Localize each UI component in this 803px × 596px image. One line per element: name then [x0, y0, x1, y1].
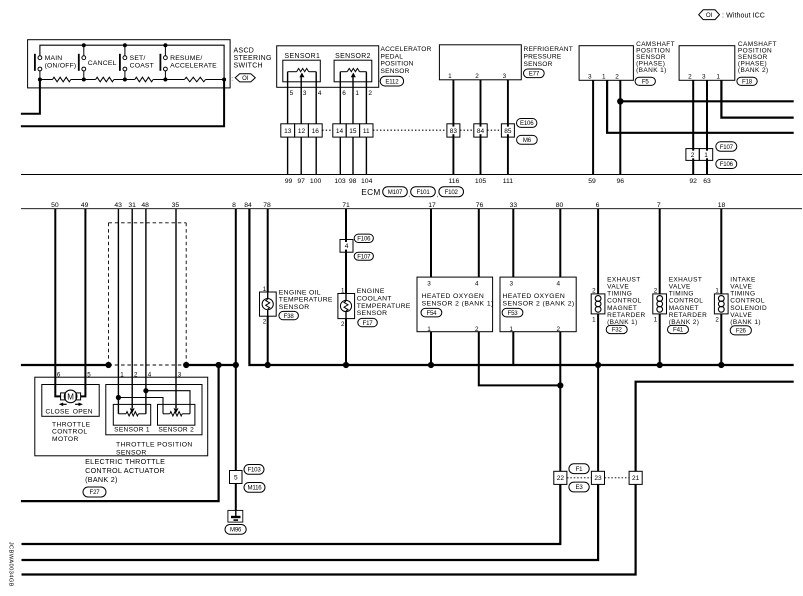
svg-text:3: 3 [303, 90, 307, 97]
heated oxygen sensor 2 (bank 1) box F54 [417, 277, 494, 333]
svg-text:MAGNET: MAGNET [669, 305, 699, 312]
svg-text:35: 35 [172, 202, 180, 209]
svg-text:1: 1 [654, 317, 658, 324]
svg-text:(ON/OFF): (ON/OFF) [45, 63, 77, 70]
svg-text:84: 84 [477, 128, 485, 135]
label ENGINE COOLANT TEMPERATURE SENSOR [357, 288, 411, 317]
svg-text:TIMING: TIMING [669, 291, 694, 298]
svg-text:2: 2 [263, 319, 267, 326]
wire ECM 31 to TPS pin2 wiper [131, 209, 133, 408]
svg-text:2: 2 [688, 74, 692, 81]
connector terminals 2 1 [686, 149, 713, 161]
svg-text:16: 16 [312, 128, 320, 135]
svg-text:TEMPERATURE: TEMPERATURE [357, 303, 411, 310]
svg-text:1: 1 [602, 74, 606, 81]
svg-text:4: 4 [557, 281, 561, 288]
svg-text:3: 3 [702, 74, 706, 81]
svg-text:OI: OI [242, 76, 249, 82]
ASCD steering switch box [28, 40, 231, 88]
wires from APP connectors to ECM [288, 137, 367, 174]
svg-text:2: 2 [475, 73, 479, 80]
page code JCBWA0034GB [8, 542, 14, 587]
svg-text::: : [231, 76, 233, 83]
connector label F1 [569, 464, 589, 474]
svg-text:M: M [67, 393, 74, 402]
ECM bottom boundary line [21, 208, 802, 210]
wire camshaft bank2 pin1 to right edge [721, 80, 793, 117]
svg-text:50: 50 [51, 202, 59, 209]
svg-text:13: 13 [284, 128, 292, 135]
connector terminals 83 84 85 [447, 124, 515, 137]
svg-text:F18: F18 [742, 79, 753, 86]
svg-text:71: 71 [342, 202, 350, 209]
wires ECM 33 and 80 to heated oxygen sensor bank2 [513, 209, 560, 277]
ASCD bottom bus wire [40, 79, 224, 81]
svg-text:,: , [408, 192, 410, 199]
svg-text:F106: F106 [720, 161, 734, 168]
svg-text:F26: F26 [736, 328, 747, 335]
svg-text:PRESSURE: PRESSURE [524, 54, 562, 61]
wires refrigerant sensor pins 1,2,3 to ECM [453, 80, 508, 175]
svg-text:84: 84 [244, 202, 252, 209]
wire from ASCD switch output to left edge [21, 80, 224, 127]
connector label F38 [279, 311, 299, 319]
wire ECM 50 to throttle motor pin6 [55, 209, 60, 397]
retarder bank2 pin labels 2 1 [654, 287, 658, 323]
CLOSE arrow [59, 403, 67, 407]
wire ECM 7 to retarder bank2 [659, 209, 661, 365]
TPS pin1 branch wire to sensor2 [118, 398, 163, 414]
label REFRIGERANT PRESSURE SENSOR [524, 46, 573, 68]
svg-text:PEDAL: PEDAL [381, 53, 404, 60]
junction dot camshaft bank1 pin2 [617, 98, 623, 104]
svg-text:1: 1 [715, 287, 719, 294]
svg-text:96: 96 [617, 178, 625, 185]
actuator pin labels 6 5 1 2 4 3 [57, 371, 182, 378]
ASCD top bus wire [40, 45, 224, 79]
svg-text:15: 15 [349, 128, 357, 135]
svg-text:THROTTLE POSITION: THROTTLE POSITION [116, 442, 193, 449]
engine oil temperature sensor F38 thermistor [260, 292, 277, 316]
dotted link between connectors 22 23 21 [567, 477, 629, 479]
svg-text:5: 5 [234, 474, 238, 481]
svg-text:1: 1 [120, 371, 124, 378]
svg-text:TIMING: TIMING [607, 291, 632, 298]
svg-text:92: 92 [689, 178, 697, 185]
svg-text:SOLENOID: SOLENOID [730, 305, 767, 312]
svg-text:POSITION: POSITION [381, 61, 414, 68]
svg-text:8: 8 [232, 202, 236, 209]
junction dot shield wire [557, 382, 563, 388]
legend badge OI : Without ICC [699, 10, 765, 20]
svg-text:HEATED OXYGEN: HEATED OXYGEN [422, 293, 485, 300]
svg-text:SET/: SET/ [130, 55, 146, 62]
switch RESUME/ACCELERATE [160, 54, 218, 80]
svg-text:2: 2 [715, 317, 719, 324]
ASCD bottom bus junction dots [38, 78, 226, 82]
svg-text:ENGINE: ENGINE [357, 288, 385, 295]
svg-text:F5: F5 [642, 79, 650, 86]
connector terminals 14 15 11 [333, 124, 373, 137]
wire HO2S bank2 pin1 to ground bus [512, 332, 514, 365]
svg-text:F54: F54 [426, 310, 437, 317]
svg-text:SENSOR 2: SENSOR 2 [158, 426, 194, 433]
switch SET/COAST [119, 54, 154, 80]
potentiometer SENSOR1 of APP sensor [283, 60, 321, 82]
svg-text:4: 4 [148, 371, 152, 378]
exhaust valve timing control magnet retarder (bank 2) coil F41 [653, 294, 667, 314]
wire ECM 48 to TPS pin4 [145, 209, 147, 414]
svg-text:F107: F107 [357, 253, 371, 260]
connector label M6 [517, 135, 538, 144]
svg-text:3: 3 [588, 74, 592, 81]
TPS pin4 branch wire to sensor2 [146, 391, 190, 414]
wire from right edge through connector 21 to left edge [22, 382, 794, 575]
TPS sensor1 potentiometer box [113, 404, 150, 425]
svg-text:2: 2 [654, 287, 658, 294]
svg-text:F27: F27 [90, 489, 101, 496]
wire from ASCD MAIN switch to left edge [21, 80, 40, 114]
svg-text:80: 80 [556, 202, 564, 209]
svg-text:63: 63 [703, 178, 711, 185]
wire ECM 8 to ground M96 [235, 209, 237, 511]
svg-text:MOTOR: MOTOR [52, 436, 79, 443]
svg-text:2: 2 [615, 74, 619, 81]
connector label F26 [730, 326, 751, 335]
svg-text:ECM: ECM [361, 187, 380, 197]
svg-text:1: 1 [355, 90, 359, 97]
dashed harness line between connectors [322, 129, 501, 131]
svg-text:22: 22 [557, 475, 565, 482]
svg-text:HEATED OXYGEN: HEATED OXYGEN [503, 293, 566, 300]
svg-text:6: 6 [57, 371, 61, 378]
svg-text:2: 2 [592, 287, 596, 294]
svg-text:SENSOR: SENSOR [116, 449, 147, 456]
wire camshaft bank2 pin2 to ECM [692, 80, 694, 174]
svg-text:12: 12 [298, 128, 306, 135]
svg-text:F41: F41 [673, 327, 684, 334]
pin labels 5 3 4 [290, 90, 322, 97]
svg-text:ASCD: ASCD [234, 48, 255, 55]
svg-text:VALVE: VALVE [669, 284, 691, 291]
svg-text:SENSOR1: SENSOR1 [285, 53, 321, 60]
wire ECM 6 to retarder bank1 [597, 209, 599, 472]
svg-text:SENSOR: SENSOR [524, 61, 553, 68]
svg-text:2: 2 [341, 321, 345, 328]
svg-text:F106: F106 [357, 236, 371, 243]
resistor R2 in ASCD switch [96, 77, 114, 82]
intake valve timing control solenoid valve (bank 1) coil F26 [714, 294, 728, 314]
svg-text:,: , [436, 192, 438, 199]
ECM top boundary line [21, 174, 802, 176]
svg-text:1: 1 [341, 288, 345, 295]
wire ECM 43 to TPS pin1 [117, 209, 119, 414]
svg-text:M6: M6 [523, 137, 532, 144]
svg-text:SENSOR 1: SENSOR 1 [114, 426, 150, 433]
svg-text:31: 31 [128, 202, 136, 209]
svg-text:E3: E3 [575, 484, 583, 491]
wire camshaft bank1 pin3 to ECM [592, 80, 594, 174]
connector terminal 23 [591, 471, 604, 484]
ECM terminal numbers top row [285, 178, 711, 185]
svg-text:5: 5 [290, 90, 294, 97]
exhaust valve timing control magnet retarder (bank 1) coil F32 [591, 294, 605, 314]
svg-text:F53: F53 [508, 310, 519, 317]
wire HO2S bank1 pin2 shield [479, 332, 561, 386]
svg-text:F102: F102 [445, 189, 459, 196]
ASCD top bus junction dots [82, 43, 168, 47]
connector label E77 [524, 69, 545, 78]
svg-text:SENSOR 2 (BANK 2): SENSOR 2 (BANK 2) [503, 300, 575, 307]
svg-text:E77: E77 [529, 71, 540, 78]
svg-text:VALVE: VALVE [730, 312, 752, 319]
connector label F103 [244, 465, 264, 475]
svg-text:5: 5 [87, 371, 91, 378]
svg-text:18: 18 [718, 202, 726, 209]
svg-text:49: 49 [81, 202, 89, 209]
svg-text:SENSOR: SENSOR [279, 304, 310, 311]
svg-text:4: 4 [345, 243, 349, 250]
wire ECM 71 to coolant temperature sensor [345, 209, 347, 365]
electric throttle control actuator box F27 [35, 377, 208, 456]
svg-text:SENSOR2: SENSOR2 [335, 53, 371, 60]
svg-text:99: 99 [285, 178, 293, 185]
wires ECM 17 and 76 to heated oxygen sensor bank1 [431, 209, 479, 277]
svg-text:(BANK 2): (BANK 2) [738, 67, 769, 74]
oil sensor pin labels 1 2 [263, 286, 267, 326]
label ENGINE OIL TEMPERATURE SENSOR [279, 289, 333, 311]
connector terminal 22 [554, 471, 567, 484]
label ASCD STEERING SWITCH [234, 48, 272, 70]
wire HO2S bank1 pin1 to ground bus [430, 332, 432, 365]
ECM terminal numbers bottom row [51, 202, 725, 209]
svg-text:REFRIGERANT: REFRIGERANT [524, 46, 573, 53]
connector label F107 [716, 142, 737, 152]
wire ECM 49 to throttle motor pin5 [81, 209, 86, 397]
connector label F41 [668, 325, 689, 333]
connector label F5 [635, 77, 655, 85]
badge OI for ASCD switch [231, 74, 255, 83]
svg-text:2: 2 [134, 371, 138, 378]
connector label E106 [517, 119, 537, 128]
svg-text:STEERING: STEERING [234, 55, 272, 62]
wire ECM 18 to intake solenoid [720, 209, 722, 365]
labels CLOSE OPEN [45, 408, 93, 415]
svg-text:ENGINE OIL: ENGINE OIL [279, 289, 321, 296]
heated oxygen sensor 2 (bank 2) box F53 [500, 277, 576, 333]
label THROTTLE CONTROL MOTOR [52, 421, 91, 443]
connector label E112 [380, 76, 403, 86]
svg-text:78: 78 [263, 202, 271, 209]
connector label M116 [244, 483, 265, 493]
label EXHAUST VALVE TIMING CONTROL MAGNET RETARDER (BANK 1) [607, 276, 645, 326]
svg-text:OPEN: OPEN [73, 408, 93, 415]
engine coolant temperature sensor F17 thermistor [338, 294, 355, 319]
svg-text:11: 11 [363, 128, 370, 135]
svg-text:3: 3 [510, 281, 514, 288]
svg-text:EXHAUST: EXHAUST [669, 276, 703, 283]
svg-text:(BANK 1): (BANK 1) [636, 67, 667, 74]
svg-text:1: 1 [592, 317, 596, 324]
svg-text:1: 1 [448, 73, 452, 80]
svg-text:14: 14 [336, 128, 344, 135]
label ACCELERATOR PEDAL POSITION SENSOR [381, 46, 432, 75]
wire camshaft bank2 pin3 to ECM [706, 80, 708, 174]
svg-text:F32: F32 [612, 327, 623, 334]
svg-text:103: 103 [334, 178, 346, 185]
svg-text:VALVE: VALVE [607, 284, 629, 291]
wires APP sensor2 pins 6,1,2 [340, 72, 366, 124]
svg-text:3: 3 [178, 371, 182, 378]
connector label F106 [716, 159, 737, 168]
sensor ground bus junction dots [265, 362, 725, 368]
svg-text:F1: F1 [576, 466, 584, 473]
svg-text:OI: OI [706, 12, 713, 19]
connector label E3 [569, 482, 589, 492]
wire camshaft bank1 pin2 to ECM and right edge [620, 80, 793, 174]
svg-text:85: 85 [504, 128, 512, 135]
wire ECM 84 sensor ground bus [249, 209, 793, 365]
wire camshaft bank1 pin1 to right edge [607, 80, 794, 133]
TPS junction dot pin1 [116, 395, 121, 400]
svg-text:M116: M116 [248, 485, 263, 492]
svg-text:SENSOR 2 (BANK 1): SENSOR 2 (BANK 1) [422, 300, 494, 307]
svg-text:(BANK 2): (BANK 2) [85, 475, 118, 484]
svg-text:104: 104 [361, 178, 373, 185]
svg-text:97: 97 [297, 178, 305, 185]
label INTAKE VALVE TIMING CONTROL SOLENOID VALVE (BANK 1) [730, 276, 767, 326]
svg-text:JCBWA0034GB: JCBWA0034GB [8, 542, 14, 587]
switch MAIN (ON/OFF) [34, 54, 76, 80]
svg-text:76: 76 [476, 202, 484, 209]
svg-text:6: 6 [596, 202, 600, 209]
wire HO2S bank2 pin2 to connector 22 [559, 332, 561, 472]
svg-text:CONTROL: CONTROL [607, 298, 642, 305]
OPEN arrow [75, 403, 83, 407]
label CAMSHAFT POSITION SENSOR (PHASE)(BANK 1) [636, 41, 675, 74]
connector label F54 [421, 308, 442, 317]
wire connector 22 to left edge [22, 484, 561, 544]
svg-text:98: 98 [349, 178, 357, 185]
svg-text:(BANK 1): (BANK 1) [730, 319, 761, 326]
wire ECM 78 to oil temperature sensor [267, 209, 269, 365]
resistor R3 in ASCD switch [135, 77, 153, 82]
shield dashed box around TPS wires [109, 223, 187, 362]
svg-text:MAGNET: MAGNET [607, 305, 637, 312]
svg-text:59: 59 [588, 178, 596, 185]
svg-text:4: 4 [318, 90, 322, 97]
svg-text:E106: E106 [520, 120, 534, 127]
svg-text:21: 21 [632, 475, 640, 482]
svg-text:83: 83 [450, 128, 458, 135]
svg-text:SENSOR: SENSOR [357, 310, 388, 317]
TPS sensor2 potentiometer box [158, 404, 195, 425]
throttle control motor box [42, 385, 99, 417]
svg-text:3: 3 [427, 281, 431, 288]
svg-text:: Without ICC: : Without ICC [722, 12, 765, 19]
connector terminal 4 on wire 71 [340, 240, 353, 253]
accelerator pedal position sensor box E112 [277, 46, 379, 88]
svg-text:TEMPERATURE: TEMPERATURE [279, 297, 333, 304]
svg-text:1: 1 [704, 152, 708, 159]
svg-text:105: 105 [475, 178, 487, 185]
svg-text:F101: F101 [416, 189, 430, 196]
connector terminal 5 [230, 471, 243, 484]
connector terminal 21 [629, 471, 642, 484]
connector label F107 on wire 71 [354, 252, 373, 260]
svg-text:SWITCH: SWITCH [234, 63, 263, 70]
svg-text:CONTROL: CONTROL [669, 298, 704, 305]
svg-text:CONTROL: CONTROL [730, 298, 765, 305]
svg-text:EXHAUST: EXHAUST [607, 276, 641, 283]
svg-text:RESUME/: RESUME/ [170, 55, 202, 62]
svg-text:43: 43 [114, 202, 122, 209]
svg-text:M96: M96 [230, 527, 242, 534]
solenoid pin labels 1 2 [715, 287, 719, 323]
connector label F53 [502, 308, 523, 317]
ground wire to left edge [21, 365, 219, 501]
camshaft position sensor (bank 1) box F5 [579, 46, 633, 81]
svg-text:116: 116 [448, 178, 459, 185]
svg-text:33: 33 [510, 202, 518, 209]
svg-text:1: 1 [716, 74, 720, 81]
refrigerant pressure sensor box E77 [439, 45, 521, 80]
wire ECM 35 to TPS pin3 wiper [175, 209, 177, 408]
coolant sensor pin labels 1 2 [341, 288, 345, 329]
svg-text:6: 6 [342, 90, 346, 97]
ground symbol M96 [228, 510, 243, 522]
svg-text:RETARDER: RETARDER [669, 312, 707, 319]
svg-text:1: 1 [263, 286, 267, 293]
svg-text:ACCELERATE: ACCELERATE [170, 63, 217, 70]
resistor R1 in ASCD switch [53, 77, 71, 82]
svg-text:2: 2 [368, 90, 372, 97]
svg-text:SENSOR: SENSOR [381, 68, 410, 75]
svg-text:F38: F38 [284, 313, 295, 320]
wires APP sensor1 pins 5,3,4 [288, 72, 317, 124]
label ELECTRIC THROTTLE CONTROL ACTUATOR (BANK 2) [85, 457, 165, 484]
TPS junction dot pin4 [143, 388, 148, 393]
svg-text:111: 111 [503, 178, 514, 185]
svg-text:RETARDER: RETARDER [607, 312, 645, 319]
ground bus junction dots [105, 362, 239, 368]
svg-text:F107: F107 [720, 144, 734, 151]
svg-text:COOLANT: COOLANT [357, 296, 392, 303]
svg-text:VALVE: VALVE [730, 284, 752, 291]
svg-text:CLOSE: CLOSE [45, 408, 69, 415]
svg-text:F17: F17 [363, 320, 374, 327]
svg-text:INTAKE: INTAKE [730, 276, 756, 283]
svg-text:3: 3 [503, 73, 507, 80]
retarder bank1 pin labels 2 1 [592, 287, 596, 323]
svg-text:MAIN: MAIN [45, 55, 63, 62]
wire connector 23 to left edge [22, 484, 599, 560]
labels SENSOR 1 SENSOR 2 [114, 426, 194, 433]
svg-text:23: 23 [594, 475, 602, 482]
camshaft position sensor (bank 2) box F18 [679, 46, 735, 81]
svg-text:100: 100 [310, 178, 322, 185]
potentiometer SENSOR2 of APP sensor [334, 60, 372, 82]
svg-text:M107: M107 [388, 189, 403, 196]
connector label F106 on wire 71 [354, 234, 373, 242]
switch CANCEL [78, 54, 117, 80]
label CAMSHAFT POSITION SENSOR (PHASE)(BANK 2) [738, 41, 777, 74]
svg-text:COAST: COAST [130, 63, 154, 70]
svg-text:48: 48 [141, 202, 149, 209]
connector label M96 [225, 525, 246, 535]
connector label F17 [358, 318, 378, 326]
svg-text:CANCEL: CANCEL [88, 60, 117, 67]
